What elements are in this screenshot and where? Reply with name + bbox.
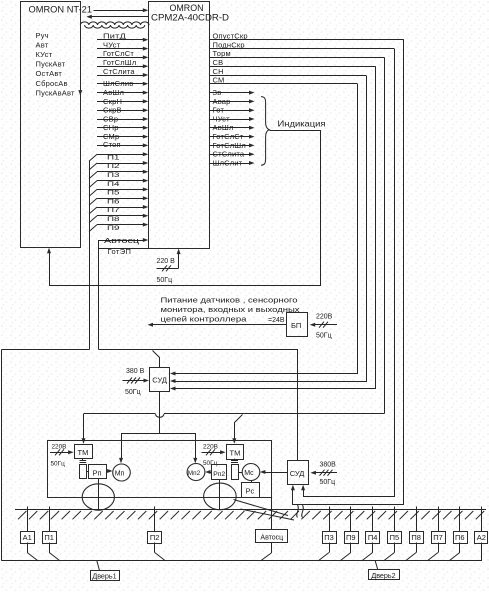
svg-text:380В: 380В — [320, 462, 337, 469]
wire Рп2 down to wheel — [219, 480, 221, 510]
svg-text:А1: А1 — [23, 533, 32, 542]
svg-text:ЧУст: ЧУст — [103, 40, 121, 49]
brake cylinder right — [232, 465, 239, 480]
wheel left — [82, 484, 114, 510]
brake actuator link left — [80, 458, 87, 463]
NT-21 button label Авт — [36, 41, 49, 50]
svg-text:50Гц: 50Гц — [125, 389, 141, 396]
enclosure bottom collector bus — [1, 560, 482, 562]
input wire ЧУст into PLC — [97, 40, 148, 50]
svg-text:А2: А2 — [477, 533, 486, 542]
svg-text:Стоп: Стоп — [103, 140, 121, 149]
output wire Авар from PLC to indication — [209, 97, 254, 106]
frame right edge wire down to Автосц box — [271, 497, 273, 530]
sensor П1 — [43, 507, 61, 561]
NT-21 button label СбросАв — [36, 79, 68, 88]
motor Мс — [238, 464, 260, 481]
svg-text:OMRON: OMRON — [170, 3, 204, 13]
svg-text:ОпустСкр: ОпустСкр — [213, 32, 248, 41]
svg-text:БП: БП — [291, 321, 301, 330]
svg-text:ШлСлив: ШлСлив — [103, 79, 133, 88]
svg-text:П9: П9 — [346, 533, 356, 542]
svg-text:СУД: СУД — [290, 469, 305, 478]
NT-21 button label ПускАвАвт — [36, 88, 75, 97]
svg-text:Дверь1: Дверь1 — [92, 571, 116, 580]
output wire ШлСлит from PLC to indication — [209, 158, 254, 167]
wire brake bus down to ТМ1 — [82, 414, 86, 444]
svg-text:СМ: СМ — [213, 76, 225, 85]
svg-text:П8: П8 — [107, 216, 120, 223]
comm cable wavy shield — [80, 22, 149, 28]
relay Рп2 — [212, 465, 227, 480]
svg-text:=24В: =24В — [268, 317, 285, 324]
input wire П5 into PLC from sensor bus — [89, 187, 148, 196]
svg-text:Индикация: Индикация — [278, 119, 326, 129]
svg-text:СНр: СНр — [103, 123, 119, 132]
HMI panel U1 OMRON NT-21 — [21, 2, 93, 248]
svg-text:ГотСлШл: ГотСлШл — [103, 58, 136, 67]
power label 220V 50Hz right — [202, 444, 226, 468]
input wire П6 into PLC from sensor bus — [89, 196, 148, 205]
svg-text:ЧУст: ЧУст — [213, 114, 231, 123]
input wire ГотСлСт into PLC — [97, 49, 148, 59]
ground hatching — [18, 511, 484, 519]
svg-text:50Гц: 50Гц — [203, 460, 218, 467]
svg-text:П3: П3 — [107, 172, 120, 179]
sensor А1 — [21, 507, 39, 561]
input wire ГотСлШл into PLC — [97, 58, 148, 68]
sensor П7 — [427, 507, 445, 561]
sensor П3 — [318, 507, 336, 561]
svg-text:220 В: 220 В — [157, 258, 176, 265]
speed controller СУД2 — [288, 461, 309, 485]
output wire ПоднСкр from PLC to right bus — [209, 40, 394, 49]
input wire Стоп into PLC — [97, 140, 148, 149]
sensor П2 — [148, 507, 166, 561]
svg-text:П5: П5 — [107, 190, 120, 197]
motor feed bracket wire — [119, 434, 197, 464]
output wire Зв from PLC to indication — [209, 88, 254, 97]
input wire П9 into PLC from sensor bus — [89, 223, 148, 232]
svg-text:ОстАвт: ОстАвт — [36, 69, 63, 78]
brake ТМ2 — [227, 445, 244, 460]
rail break symbol — [297, 505, 304, 518]
power 380V 50Hz to СУД2 — [310, 462, 337, 487]
svg-text:СУД: СУД — [152, 376, 167, 385]
door box Дверь2 — [369, 561, 400, 580]
svg-text:СкрН: СкрН — [103, 97, 122, 106]
node Индикация label and wire to NT-21 — [47, 119, 326, 286]
wire brake bus down to ТМ2 — [232, 415, 242, 444]
svg-text:ПускАвАвт: ПускАвАвт — [36, 88, 75, 97]
svg-text:цепей контроллера: цепей контроллера — [161, 315, 248, 324]
sensor А2 — [475, 507, 488, 561]
svg-text:Питание датчиков , сенсорного: Питание датчиков , сенсорного — [161, 296, 298, 305]
brake cylinder left — [80, 465, 87, 479]
svg-text:П9: П9 — [107, 225, 120, 232]
svg-text:ТМ: ТМ — [230, 448, 241, 457]
svg-text:ГотЭП: ГотЭП — [108, 247, 132, 256]
output wire ОпустСкр from PLC to right bus — [209, 32, 403, 41]
svg-text:Торм: Торм — [213, 49, 231, 58]
svg-text:50Гц: 50Гц — [320, 479, 336, 486]
NT-21 button label Руч — [36, 31, 49, 40]
wire СУД2 to motor Мс — [260, 470, 287, 474]
svg-text:Автосц: Автосц — [104, 236, 140, 245]
output wire СН from PLC to right bus — [209, 67, 366, 76]
machine frame — [48, 441, 272, 498]
sensor bus vertical wire (П1-П9) down to machine area — [89, 161, 91, 350]
indication brace — [261, 97, 269, 166]
svg-text:ТМ: ТМ — [78, 448, 89, 457]
motor Мп — [113, 464, 131, 481]
svg-text:ПускАвт: ПускАвт — [36, 60, 66, 69]
svg-text:П1: П1 — [44, 533, 54, 542]
svg-text:220В: 220В — [316, 314, 333, 321]
svg-text:П6: П6 — [107, 198, 120, 205]
svg-text:СтСлита: СтСлита — [213, 150, 245, 159]
svg-text:Мп: Мп — [115, 471, 125, 478]
note text power for sensors — [161, 296, 300, 324]
svg-text:ГотСлСт: ГотСлСт — [213, 132, 244, 141]
svg-text:50Гц: 50Гц — [51, 461, 66, 468]
sensor П9 — [340, 507, 359, 561]
svg-text:Рп2: Рп2 — [213, 471, 225, 478]
svg-text:ШлСлит: ШлСлит — [213, 158, 243, 167]
svg-text:П7: П7 — [107, 207, 120, 214]
relay Рс — [242, 481, 260, 498]
wire Рп down to wheel — [98, 479, 100, 510]
brake ТМ1 — [75, 445, 93, 459]
NT-21 button label ПускАвт — [36, 60, 66, 69]
sensor П5 — [384, 507, 402, 561]
output wire СВ from PLC to right bus — [209, 58, 375, 67]
svg-text:П6: П6 — [455, 533, 465, 542]
svg-text:Авар: Авар — [213, 97, 231, 106]
wire СВ vertical down to СУД1 — [170, 67, 376, 391]
svg-text:Руч: Руч — [36, 31, 49, 40]
power supply 220V 50Hz to БП — [310, 314, 337, 340]
sensor П6 — [449, 507, 468, 561]
wire Рп2 to motor Мп2 — [205, 470, 212, 474]
svg-text:СН: СН — [213, 67, 224, 76]
svg-text:50Гц: 50Гц — [157, 277, 173, 284]
input wire СкрН into PLC — [97, 97, 148, 106]
input wire АвШл into PLC — [97, 88, 148, 97]
power supply unit БП — [287, 313, 308, 337]
input wire Автосц into PLC — [99, 236, 149, 245]
machine area enclosure box — [2, 350, 298, 561]
wire ПоднСкр vertical down right side to СУД2 bottom — [301, 49, 394, 497]
output wire ГотСлШл from PLC to indication — [209, 141, 254, 150]
svg-text:Мс: Мс — [244, 470, 254, 477]
svg-text:П4: П4 — [107, 181, 120, 188]
svg-text:Дверь2: Дверь2 — [371, 571, 395, 580]
speed controller СУД1 — [150, 368, 170, 392]
input wire СкрВ into PLC — [97, 106, 148, 115]
wire СУД1 bottom to motor bracket — [159, 391, 161, 433]
wire from enclosure to СУД1 top — [153, 351, 160, 368]
input wire ПитД into PLC — [97, 32, 148, 42]
svg-text:ПоднСкр: ПоднСкр — [213, 40, 245, 49]
brake actuator link right — [231, 459, 238, 463]
input wire СВр into PLC — [97, 114, 148, 123]
coupling link bar 1 — [234, 500, 289, 516]
output wire ЧУст from PLC to indication — [209, 114, 254, 123]
svg-text:П7: П7 — [433, 533, 443, 542]
svg-text:Мп2: Мп2 — [188, 470, 201, 477]
input wire П2 into PLC from sensor bus — [89, 161, 148, 170]
svg-text:П2: П2 — [150, 533, 160, 542]
svg-text:П8: П8 — [411, 533, 421, 542]
output wire СМ from PLC to right bus — [209, 76, 357, 85]
svg-text:CPM2A-40CDR-D: CPM2A-40CDR-D — [151, 13, 230, 23]
svg-text:СВр: СВр — [103, 114, 118, 123]
svg-text:ГотСлШл: ГотСлШл — [213, 141, 246, 150]
sensor box Автосц — [256, 530, 288, 561]
input wire П8 into PLC from sensor bus — [89, 214, 148, 223]
input wire ШлСлив into PLC — [97, 79, 148, 88]
svg-text:П4: П4 — [368, 533, 378, 542]
svg-text:50Гц: 50Гц — [316, 333, 332, 340]
svg-text:П1: П1 — [107, 154, 120, 161]
output wire Торм from PLC to right bus — [209, 49, 384, 58]
svg-text:380 В: 380 В — [126, 368, 145, 375]
arrow into NT-21 right edge — [78, 90, 82, 96]
svg-text:Рс: Рс — [246, 487, 255, 496]
svg-text:220В: 220В — [52, 444, 67, 451]
svg-text:Зв: Зв — [213, 88, 222, 97]
svg-text:монитора, входных и выходных: монитора, входных и выходных — [161, 305, 300, 314]
svg-text:П5: П5 — [390, 533, 400, 542]
input wire СтСлита into PLC — [97, 67, 148, 77]
power 380V 50Hz to СУД1 — [122, 368, 149, 396]
wire Торм vertical down to brake bus — [384, 58, 386, 414]
comm wire NT-21 to PLC with right arrow — [94, 8, 149, 12]
input wire П7 into PLC from sensor bus — [89, 205, 148, 214]
door box Дверь1 — [91, 561, 120, 581]
relay Рп — [86, 465, 106, 479]
Автосц vertical wire down to machine area — [98, 240, 100, 350]
wire СМ vertical down to СУД1 — [170, 84, 358, 376]
wheel right — [204, 483, 237, 510]
brake bus wire with hop — [84, 414, 385, 418]
motor Мп2 — [187, 464, 205, 481]
output wire СтСлита from PLC to indication — [209, 150, 254, 159]
svg-text:СВ: СВ — [213, 58, 224, 67]
input wire ГотЭП into PLC — [99, 247, 149, 256]
svg-text:Гот: Гот — [213, 106, 225, 115]
svg-text:П3: П3 — [324, 533, 334, 542]
wire Рп to motor Мп — [106, 469, 112, 473]
wire ОпустСкр vertical down right side to СУД2 bottom — [291, 40, 404, 505]
svg-text:СбросАв: СбросАв — [36, 79, 68, 88]
output wire Гот from PLC to indication — [209, 106, 254, 115]
svg-text:КУст: КУст — [36, 50, 53, 59]
svg-text:П2: П2 — [107, 163, 120, 170]
output wire ГотСлСт from PLC to indication — [209, 132, 254, 141]
input wire П3 into PLC from sensor bus — [89, 170, 148, 179]
input wire СНр into PLC — [97, 123, 148, 132]
input wire П4 into PLC from sensor bus — [89, 179, 148, 188]
svg-text:Авт: Авт — [36, 41, 49, 50]
svg-text:СкрВ: СкрВ — [103, 106, 122, 115]
NT-21 button label ОстАвт — [36, 69, 63, 78]
svg-text:АвШл: АвШл — [213, 123, 234, 132]
NT-21 button label КУст — [36, 50, 53, 59]
output wire АвШл from PLC to indication — [209, 123, 254, 132]
power label 220V 50Hz left — [50, 444, 74, 468]
svg-text:Рп: Рп — [93, 469, 102, 478]
wire 24V from БП with left arrow — [148, 317, 287, 327]
svg-text:ГотСлСт: ГотСлСт — [103, 49, 134, 58]
svg-text:Автосц: Автосц — [260, 534, 283, 541]
svg-text:АвШл: АвШл — [103, 88, 124, 97]
rail line — [15, 509, 486, 511]
power supply 220V 50Hz to PLC bottom — [157, 249, 181, 284]
sensor П8 — [405, 507, 423, 561]
comm wire PLC to NT-21 with left arrow — [86, 15, 148, 19]
coupling link bar 2 — [241, 509, 295, 520]
input wire П1 into PLC from sensor bus — [89, 152, 148, 161]
input wire СМр into PLC — [97, 132, 148, 141]
svg-text:ПитД: ПитД — [103, 32, 126, 41]
svg-text:OMRON NT-21: OMRON NT-21 — [29, 5, 93, 15]
PLC U2 OMRON CPM2A-40CDR-D — [149, 2, 230, 249]
wire СН vertical down to СУД1 — [170, 76, 367, 384]
sensor П4 — [362, 507, 380, 561]
svg-text:СтСлита: СтСлита — [103, 67, 135, 76]
